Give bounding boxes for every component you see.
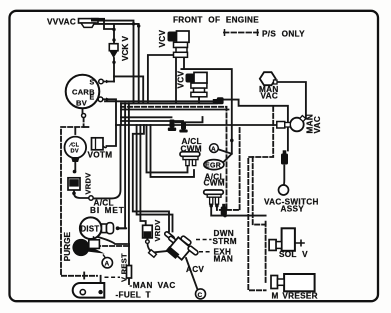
svg-text:VVVAC: VVVAC <box>47 18 76 27</box>
svg-text:VAC: VAC <box>261 92 279 101</box>
svg-text:CWM: CWM <box>181 145 202 154</box>
svg-text:VRDV: VRDV <box>153 219 162 241</box>
svg-text:C: C <box>198 292 203 299</box>
svg-text:SOL V: SOL V <box>279 250 308 259</box>
svg-text:-MAN VAC: -MAN VAC <box>130 281 176 290</box>
svg-text:CWM: CWM <box>204 179 225 188</box>
svg-text:VRDV: VRDV <box>84 172 93 194</box>
svg-text:A: A <box>105 261 110 268</box>
svg-text:STRM: STRM <box>213 237 237 246</box>
svg-text:PURGE: PURGE <box>63 232 72 262</box>
svg-text:M VRESER: M VRESER <box>272 292 318 301</box>
svg-text:E: E <box>90 95 95 102</box>
svg-text:VCV: VCV <box>177 71 186 89</box>
svg-text:FRONT OF ENGINE: FRONT OF ENGINE <box>173 16 259 25</box>
svg-text:VAC: VAC <box>313 116 322 134</box>
svg-text:EGR: EGR <box>205 163 221 170</box>
svg-text:DIST: DIST <box>81 225 100 234</box>
svg-text:BI MET: BI MET <box>90 206 125 215</box>
svg-text:MAN: MAN <box>214 254 234 263</box>
svg-text:VOTM: VOTM <box>88 151 113 160</box>
svg-text:VCK V: VCK V <box>121 35 130 61</box>
svg-text:P/S ONLY: P/S ONLY <box>262 30 305 39</box>
svg-text:S: S <box>90 80 95 87</box>
svg-text:V REST: V REST <box>120 253 129 282</box>
svg-text:BV: BV <box>76 99 87 108</box>
svg-text:-FUEL T: -FUEL T <box>116 290 151 299</box>
svg-text:DV: DV <box>71 149 79 155</box>
svg-text:ACV: ACV <box>186 265 204 274</box>
svg-text:A: A <box>211 146 216 153</box>
svg-text:ASSY: ASSY <box>281 205 305 214</box>
svg-text:VCV: VCV <box>158 30 167 48</box>
